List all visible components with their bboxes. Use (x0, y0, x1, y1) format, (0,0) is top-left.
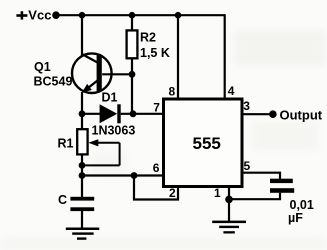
capacitor 0,01 uF (270, 179, 294, 193)
label R1 (58, 137, 74, 151)
svg-text:R1: R1 (58, 137, 74, 151)
node junction dot R2/rail (129, 12, 136, 19)
svg-text:Vcc: Vcc (28, 8, 51, 23)
resistor R2 (127, 30, 138, 58)
wire pin4 from rail corner down to IC top (224, 14, 226, 98)
svg-text:555: 555 (193, 134, 221, 153)
wire pin 3 output (243, 113, 271, 115)
ground left (66, 228, 99, 240)
wiper arrow of R1 (82, 139, 120, 165)
node junction dot base/R2 (129, 71, 136, 78)
wire pin 2 loop (134, 176, 178, 200)
svg-text:C: C (58, 193, 67, 207)
node junction dot pin1 (225, 196, 233, 204)
label R2 (140, 31, 156, 45)
wire rail to R2 top (131, 15, 133, 31)
label D1 (102, 91, 118, 105)
pin 5 label (244, 159, 251, 173)
op-amp / timer IC U1 555 (164, 99, 243, 187)
svg-text:D1: D1 (102, 91, 118, 105)
svg-text:Output: Output (280, 107, 323, 122)
wire R2 bottom to diode node (131, 58, 133, 114)
wire emitter down to diode anode node (81, 92, 83, 130)
label uF (288, 211, 303, 225)
wire pin 6 (82, 174, 164, 176)
svg-text:0,01: 0,01 (290, 198, 314, 212)
svg-text:2: 2 (169, 186, 176, 200)
wire R1 bottom down to capacitor C (81, 154, 83, 197)
wire cap bottom to pin1 node (229, 193, 280, 199)
node Output terminal (269, 107, 323, 122)
wire pin 5 to cap (243, 173, 281, 179)
wire D1 cathode to pin 7 (121, 113, 164, 115)
svg-text:6: 6 (153, 161, 160, 175)
node junction dot pin8/rail (175, 12, 182, 19)
svg-text:3: 3 (243, 99, 250, 113)
svg-text:µF: µF (288, 211, 303, 225)
svg-text:7: 7 (153, 101, 160, 115)
pin 8 label (169, 84, 176, 98)
svg-text:8: 8 (169, 84, 176, 98)
label BC549 (34, 75, 73, 89)
label 1,5 K (140, 46, 170, 60)
svg-text:BC549: BC549 (34, 75, 73, 89)
label 0,01 (290, 198, 314, 212)
node junction dot D1 cathode / pin7 (130, 110, 137, 117)
label 1N3063 (92, 124, 136, 138)
capacitor C (70, 197, 94, 211)
pin 1 label (214, 186, 221, 200)
pin 4 label (228, 84, 235, 98)
pin 3 label (243, 99, 250, 113)
svg-text:1N3063: 1N3063 (92, 124, 136, 138)
svg-text:5: 5 (244, 159, 251, 173)
pin 7 label (153, 101, 160, 115)
svg-text:1,5 K: 1,5 K (140, 46, 170, 60)
node junction dot pin2 branch (131, 172, 138, 179)
node junction dot collector/rail (79, 12, 86, 19)
wire base to R2 node (102, 73, 132, 75)
wire C bottom to ground (81, 211, 83, 228)
wire D1 anode lead (82, 113, 100, 115)
pin 6 label (153, 161, 160, 175)
wire top Vcc rail (56, 14, 225, 16)
wire pin8 from rail down to IC top (177, 15, 179, 98)
pin 2 label (169, 186, 176, 200)
wire collector drop (81, 15, 83, 56)
resistor R1 (variable) (77, 129, 87, 154)
svg-text:4: 4 (228, 84, 235, 98)
node junction dot wiper/R1 bottom (79, 162, 86, 169)
node Vcc terminal (16, 8, 59, 23)
wire pin 1 down to ground (228, 187, 230, 221)
label C (58, 193, 67, 207)
svg-text:Q1: Q1 (34, 60, 51, 74)
transistor Q1 (72, 53, 112, 93)
svg-text:1: 1 (214, 186, 221, 200)
diode D1 (100, 104, 121, 123)
node junction dot emitter/D1 anode (79, 110, 86, 117)
node junction dot pin6 branch (79, 172, 86, 179)
svg-text:R2: R2 (140, 31, 156, 45)
label Q1 (34, 60, 51, 74)
ground right (212, 221, 246, 234)
